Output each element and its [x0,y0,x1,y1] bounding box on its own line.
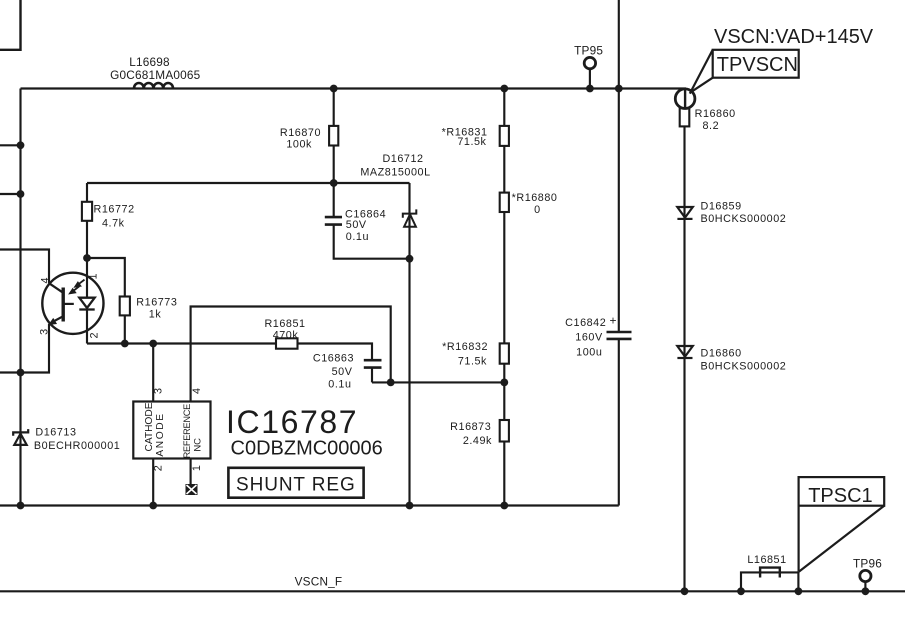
wire L16851 loop [741,572,798,591]
wire IC pin1 drop [190,459,192,485]
wire ground rail y=505.5 [0,504,619,506]
svg-text:R16860: R16860 [695,108,736,120]
svg-text:100k: 100k [286,138,312,150]
wire node rail y=183 [87,182,410,184]
optocoupler body [42,273,103,334]
svg-text:NC: NC [192,438,203,452]
svg-text:B0ECHR000001: B0ECHR000001 [34,440,120,452]
resistor R16860 [680,108,690,126]
op-amp IC16787 pin box [133,402,210,459]
svg-text:R16851: R16851 [264,318,305,330]
svg-text:MAZ815000L: MAZ815000L [360,166,430,178]
wire R16773 link [87,258,125,344]
svg-text:0.1u: 0.1u [328,379,351,391]
svg-text:0: 0 [534,204,541,216]
resistor R16851 [276,338,298,348]
wire R16772 branch [86,183,88,258]
svg-text:4: 4 [191,387,203,394]
svg-text:ANODE: ANODE [155,412,166,456]
svg-text:3: 3 [38,328,50,335]
wire opto pin4 rail [0,250,49,284]
frame corner top-left [0,0,21,50]
svg-text:R16773: R16773 [136,297,177,309]
svg-text:71.5k: 71.5k [458,356,487,368]
resistor R16880 [500,193,509,212]
resistor R16870 [329,126,338,146]
light arrows of optocoupler [70,280,85,294]
svg-text:L16698: L16698 [129,55,170,69]
svg-text:*R16832: *R16832 [442,341,488,353]
ferrite bead L16851 [760,568,780,578]
wire divider tap y=382.4 [372,381,504,383]
svg-text:TPVSCN: TPVSCN [717,54,798,76]
svg-text:G0C681MA0065: G0C681MA0065 [110,68,201,82]
svg-text:470k: 470k [273,329,299,341]
svg-text:4: 4 [40,277,52,284]
wire TP95 stem [589,69,591,89]
LED of optocoupler [79,298,94,310]
capacitor C16863 [364,360,382,367]
svg-text:SHUNT REG: SHUNT REG [236,475,356,496]
wire divider chain x=504.3 [503,89,505,506]
test point TP96 [860,570,871,581]
svg-text:0.1u: 0.1u [346,231,369,243]
no-connect symbol pin1 [186,484,198,495]
diode D16712 zener [403,209,417,226]
wire C16864 branch [334,183,410,259]
test point TPVSCN connector [675,88,695,108]
svg-text:2: 2 [153,465,165,472]
wire R16860 diode bus x=684.5 [683,126,685,591]
svg-text:TPSC1: TPSC1 [808,485,872,507]
resistor R16873 [500,420,509,442]
wire reference net [191,307,391,402]
wire zener bus x=409.5 [408,183,410,506]
TPVSCN flag box [690,50,799,94]
wire R16870 branch [333,89,335,184]
svg-text:50V: 50V [332,366,353,378]
svg-text:C16863: C16863 [313,353,354,365]
svg-text:1: 1 [191,465,203,472]
svg-text:B0HCKS000002: B0HCKS000002 [701,213,787,225]
diode D16859 [677,207,693,219]
svg-text:TP96: TP96 [853,556,882,570]
diode D16860 [677,346,693,358]
svg-text:D16860: D16860 [701,348,742,360]
svg-text:D16712: D16712 [382,153,423,165]
inductor L16698 [134,83,173,88]
svg-text:1k: 1k [149,309,162,321]
wire VSCN_F rail y=591.3 [0,590,905,592]
diode D16713 zener [13,429,28,445]
svg-text:2: 2 [89,332,101,339]
svg-text:8.2: 8.2 [703,120,720,132]
SHUNT REG box [228,468,363,498]
wire C16842 bus x=618.8 [618,0,620,506]
svg-text:100u: 100u [576,347,602,359]
svg-text:160V: 160V [575,332,603,344]
svg-text:IC16787: IC16787 [226,404,358,440]
svg-text:R16870: R16870 [280,127,321,139]
wire TPSC1 drop [797,572,799,592]
wire IC pin2 drop [152,459,154,506]
svg-text:C0DBZMC00006: C0DBZMC00006 [231,437,383,459]
svg-text:*R16880: *R16880 [512,192,558,204]
wire main +145V rail y=88.5 [21,87,687,89]
wire left bus x=20.5 [19,89,21,506]
svg-text:71.5k: 71.5k [457,136,486,148]
svg-text:REFERENCE: REFERENCE [182,404,192,459]
wire opto pin3 rail [0,324,49,373]
test point TP95 [584,57,595,68]
TPSC1 flag box [799,477,885,572]
wire TP96 stem [864,582,866,592]
resistor R16832 [500,343,509,363]
resistor R16831 [500,126,509,146]
svg-text:2.49k: 2.49k [463,435,492,447]
svg-text:D16713: D16713 [35,427,76,439]
svg-text:VSCN:VAD+145V: VSCN:VAD+145V [714,26,874,48]
wire cathode rail y=343.5 [87,344,372,383]
transistor phototransistor of optocoupler [49,283,74,324]
resistor R16772 [82,202,92,221]
wire IC pin3 riser [152,344,154,402]
svg-text:50V: 50V [346,219,367,231]
svg-text:3: 3 [153,387,165,394]
resistor R16773 [120,297,130,316]
svg-text:D16859: D16859 [701,201,742,213]
svg-text:TP95: TP95 [574,44,603,58]
svg-text:1: 1 [87,273,99,280]
svg-text:B0HCKS000002: B0HCKS000002 [701,361,787,373]
svg-text:+: + [610,314,617,328]
svg-text:R16873: R16873 [450,421,491,433]
svg-text:L16851: L16851 [747,554,786,566]
svg-text:4.7k: 4.7k [102,218,125,230]
capacitor C16842 [607,332,632,339]
svg-text:R16772: R16772 [94,204,135,216]
wire stub left y=194 [0,193,21,195]
wire opto LED anode/cathode [86,258,88,344]
svg-text:C16842: C16842 [565,317,606,329]
wire stub left y=145.3 [0,144,21,146]
svg-text:VSCN_F: VSCN_F [295,574,343,588]
svg-text:CATHODE: CATHODE [144,402,155,451]
capacitor C16864 [325,217,342,225]
